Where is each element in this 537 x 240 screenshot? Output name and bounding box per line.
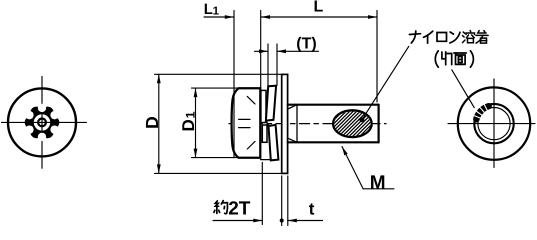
katakana ro: [437, 33, 447, 42]
svg-text:t: t: [309, 199, 315, 218]
katakana i: [424, 31, 433, 43]
node flat washer: [282, 74, 288, 173]
wire dimension L1: [204, 11, 261, 158]
wire dimension D1: [192, 88, 251, 158]
node right-view centerlines: [448, 79, 535, 168]
node left-view centerlines: [2, 77, 87, 169]
paren open: [435, 51, 438, 67]
svg-text:L: L: [314, 0, 324, 16]
paren close: [470, 51, 473, 67]
label nylon text line1: [409, 31, 488, 44]
node dot at washer face: [280, 219, 284, 223]
label L1: [204, 1, 220, 18]
node spring washer lower half: [269, 125, 279, 160]
wire dimension D: [155, 74, 281, 173]
wire dimension L: [261, 11, 377, 103]
wire spring washer bottom back edge: [261, 159, 271, 161]
kanji you (dissolve): [463, 31, 475, 43]
svg-text:(T): (T): [296, 36, 316, 53]
label nylon text line2: [435, 51, 473, 67]
kanji kata (one side): [442, 52, 452, 65]
node nylon patch ellipse: [333, 110, 372, 137]
kanji chaku (adhere): [476, 31, 488, 44]
wire dimension 2T: [213, 163, 262, 225]
node left-view torx recess notches: [25, 104, 59, 141]
node right-view washer outer circle: [458, 87, 530, 159]
svg-text:D: D: [179, 119, 198, 131]
node right-view thread minor circle: [478, 108, 510, 140]
kanji men (face): [454, 53, 466, 64]
svg-text:M: M: [370, 173, 386, 194]
node right-view nylon patch arc: [476, 106, 488, 119]
kanji yaku: [214, 201, 228, 214]
node screw head (pan head side view): [232, 88, 261, 158]
katakana n: [450, 32, 460, 43]
node spring washer upper half: [266, 86, 276, 121]
node threaded shank: [288, 105, 379, 143]
wire shank left chamfer: [288, 105, 297, 143]
wire side-view axis centerline: [229, 123, 386, 125]
node left-view center pin circle: [38, 119, 46, 127]
label approx 2T: [214, 201, 228, 214]
wire horizontal centerline left view: [2, 121, 87, 123]
wire leader to end view patch: [452, 70, 474, 108]
svg-text:1: 1: [184, 111, 198, 118]
svg-text:L: L: [204, 1, 213, 18]
wire spring washer split line: [266, 121, 269, 126]
label D1: [179, 111, 198, 131]
node nylon patch hatching: [306, 100, 425, 145]
node M thread leader: [342, 147, 394, 189]
svg-text:D: D: [142, 116, 162, 129]
wire dimension (T): [255, 44, 319, 85]
wire left-view pin crosshair: [34, 114, 50, 130]
node left-view head outer circle: [8, 88, 76, 156]
katakana na: [409, 31, 420, 43]
svg-text:2T: 2T: [228, 198, 251, 219]
node head recess hidden lines: [239, 96, 255, 149]
node left-view torx recess band: [26, 108, 59, 137]
svg-text:1: 1: [213, 5, 220, 17]
node spring washer back slivers: [261, 90, 267, 142]
node right-view thread circle: [474, 104, 513, 143]
wire vertical centerline left view: [41, 77, 43, 169]
wire nylon leader line with dot: [362, 46, 409, 120]
wire dimension t: [282, 176, 323, 226]
